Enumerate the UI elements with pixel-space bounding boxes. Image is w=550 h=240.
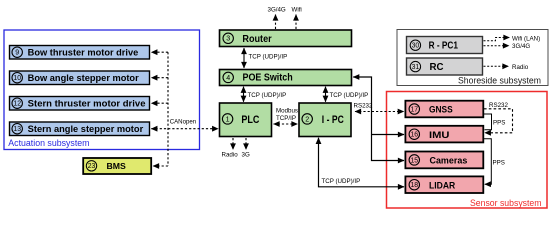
svg-text:Stern thruster motor drive: Stern thruster motor drive (28, 98, 146, 108)
svg-text:PPS: PPS (493, 120, 505, 127)
svg-text:RS232: RS232 (354, 103, 373, 110)
wire router to POE switch (243, 48, 245, 68)
svg-text:Cameras: Cameras (430, 156, 468, 167)
svg-text:IMU: IMU (429, 130, 449, 141)
wire R-PC1 to wifi LAN (484, 38, 510, 41)
wire router to wifi antenna (295, 15, 297, 30)
wire branch to IMU (372, 134, 405, 136)
wire CANopen to block 10 (151, 77, 168, 79)
wire PLC to I-PC modbus (274, 123, 298, 125)
svg-text:15: 15 (411, 156, 419, 164)
POE switch block 4 (220, 70, 352, 86)
I-PC block 2 (299, 103, 351, 137)
svg-text:Bow thruster motor drive: Bow thruster motor drive (28, 47, 139, 57)
PLC block 1 (220, 103, 272, 137)
svg-text:Stern angle stepper motor: Stern angle stepper motor (28, 124, 144, 134)
wire CANopen block 13 to PLC (151, 128, 218, 130)
wire RC to radio (484, 65, 509, 67)
CANopen bus dashed vertical wire (167, 52, 169, 166)
svg-text:TCP (UDP)/IP: TCP (UDP)/IP (249, 54, 288, 61)
IMU block 16 (405, 126, 483, 143)
wire PLC to 3G (245, 138, 247, 150)
wire POE switch to I-PC (325, 87, 327, 102)
svg-text:31: 31 (412, 63, 420, 71)
svg-text:Radio: Radio (512, 64, 529, 71)
sensor subsystem frame (387, 92, 548, 209)
svg-text:CANopen: CANopen (170, 119, 197, 126)
wire I-PC to GNSS RS232 (355, 111, 404, 113)
wire router to 3G/4G antenna (275, 15, 277, 30)
wire I-PC to LIDAR (319, 138, 405, 187)
router block 3 (220, 30, 352, 47)
svg-text:BMS: BMS (107, 161, 127, 171)
svg-text:18: 18 (411, 181, 419, 189)
svg-text:Actuation subsystem: Actuation subsystem (8, 138, 89, 148)
svg-text:23: 23 (88, 162, 96, 170)
shoreside subsystem frame (397, 30, 548, 86)
svg-text:Wifi (LAN): Wifi (LAN) (512, 36, 540, 43)
wire R-PC1 to 3G/4G (484, 45, 510, 47)
svg-text:Router: Router (242, 34, 271, 45)
svg-text:1: 1 (226, 115, 230, 123)
svg-text:TCP (UDP)/IP: TCP (UDP)/IP (330, 92, 369, 99)
svg-text:GNSS: GNSS (429, 105, 453, 116)
svg-text:10: 10 (13, 74, 21, 82)
BMS block 23 (83, 158, 151, 174)
svg-text:Modbus: Modbus (276, 108, 298, 115)
GNSS block 17 (405, 101, 483, 118)
svg-text:Radio: Radio (222, 152, 239, 159)
R-PC1 block 30 (407, 37, 483, 54)
svg-text:3G/4G: 3G/4G (268, 7, 286, 14)
svg-text:TCP (UDP)/IP: TCP (UDP)/IP (248, 92, 287, 99)
stern thruster motor drive block 12 (10, 97, 150, 111)
wire CANopen to block 12 (151, 102, 168, 104)
svg-text:16: 16 (411, 131, 419, 139)
wire GNSS to IMU PPS solid (484, 114, 492, 130)
actuation subsystem frame (4, 30, 200, 150)
svg-text:30: 30 (412, 42, 420, 50)
wire POE switch to IMU and cameras (353, 77, 404, 161)
svg-text:PLC: PLC (241, 114, 259, 126)
svg-text:Sensor subsystem: Sensor subsystem (470, 198, 542, 208)
svg-text:TCP/IP: TCP/IP (276, 115, 296, 122)
cameras block 15 (405, 152, 483, 169)
svg-text:2: 2 (305, 115, 309, 123)
svg-text:Wifi: Wifi (292, 7, 302, 14)
svg-text:TCP (UDP)/IP: TCP (UDP)/IP (322, 178, 361, 185)
svg-text:17: 17 (411, 105, 419, 113)
wire PLC to radio (232, 138, 234, 150)
wire CANopen to block 9 (151, 51, 168, 53)
svg-text:RS232: RS232 (489, 102, 508, 109)
svg-text:I - PC: I - PC (322, 114, 344, 126)
svg-text:R - PC1: R - PC1 (429, 41, 459, 52)
svg-text:3G/4G: 3G/4G (512, 43, 530, 50)
bow angle stepper motor block 10 (10, 71, 150, 85)
svg-text:3: 3 (226, 35, 230, 43)
svg-text:Shoreside subsystem: Shoreside subsystem (458, 76, 541, 86)
svg-text:LIDAR: LIDAR (429, 180, 455, 191)
wire IMU to LIDAR PPS solid (484, 139, 491, 185)
wire GNSS to IMU RS232 dashed (484, 109, 513, 133)
stern angle stepper motor block 13 (10, 122, 150, 136)
svg-text:4: 4 (226, 74, 230, 82)
svg-text:PPS: PPS (493, 160, 505, 167)
svg-text:12: 12 (13, 100, 21, 108)
RC block 31 (407, 58, 483, 75)
svg-text:Bow angle stepper motor: Bow angle stepper motor (28, 73, 140, 83)
svg-text:POE Switch: POE Switch (243, 73, 293, 84)
LIDAR block 18 (405, 176, 483, 193)
bow thruster motor drive block 9 (10, 46, 150, 60)
svg-text:9: 9 (15, 49, 19, 57)
svg-text:RC: RC (430, 62, 444, 73)
svg-text:3G: 3G (242, 152, 250, 159)
wire CANopen to BMS (153, 165, 168, 167)
svg-text:13: 13 (13, 125, 21, 133)
wire POE switch to PLC (243, 87, 245, 102)
